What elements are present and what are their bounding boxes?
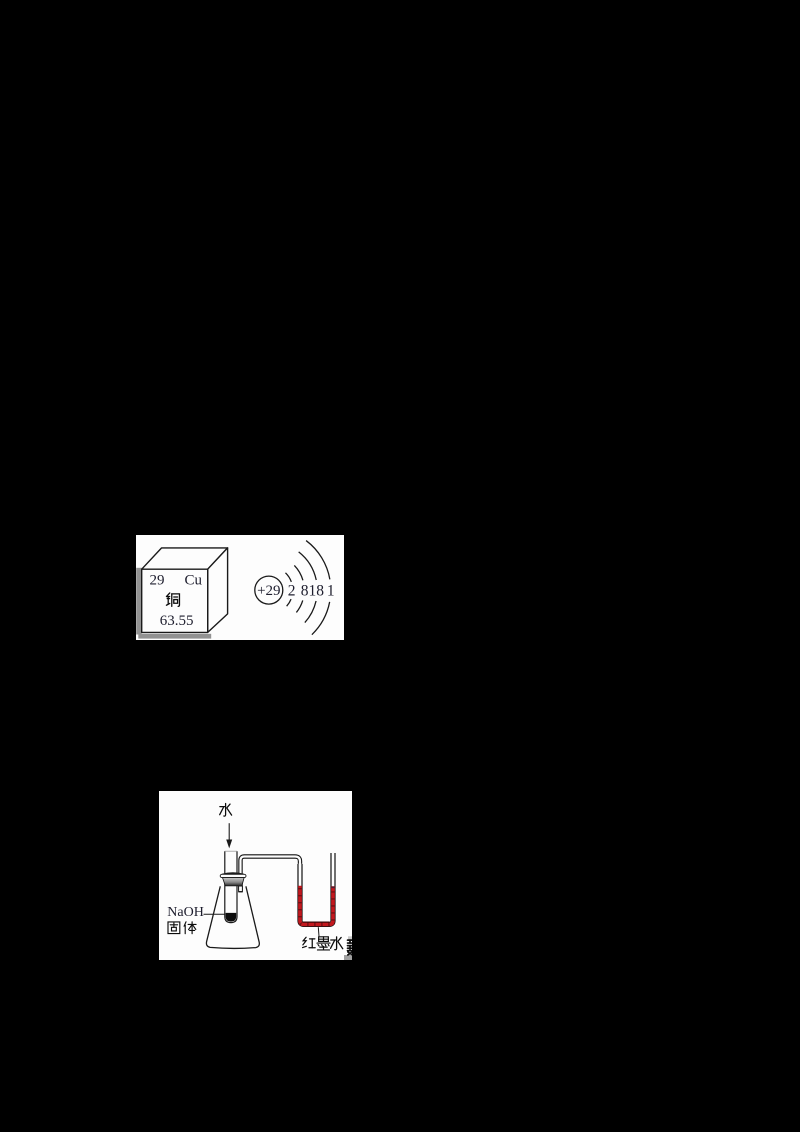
svg-text:Cu: Cu	[185, 573, 203, 589]
svg-text:63.55: 63.55	[160, 613, 194, 629]
svg-text:1: 1	[327, 583, 335, 600]
svg-text:NaOH: NaOH	[167, 905, 204, 920]
svg-text:18: 18	[309, 583, 325, 600]
svg-text:+29: +29	[257, 583, 280, 599]
svg-text:29: 29	[150, 573, 165, 589]
svg-text:8: 8	[301, 583, 309, 600]
svg-text:2: 2	[288, 583, 296, 600]
